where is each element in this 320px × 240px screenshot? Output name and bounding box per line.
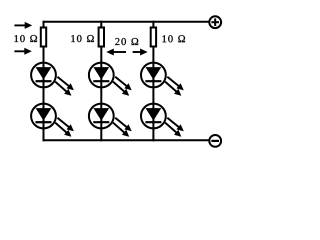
current arrow into branch 1 (upper) — [14, 22, 32, 29]
value label 20 ohm (between branch 2 and 3) — [115, 38, 138, 45]
negative supply terminal (-) — [209, 135, 221, 147]
LED D4 — [89, 104, 132, 137]
wire: branch 2 vertical — [100, 21, 102, 142]
wire: top rail (+) bus — [43, 21, 210, 23]
current arrow pointing left toward branch 2 — [106, 49, 126, 56]
LED D6 — [141, 104, 184, 137]
value label 10 ohm (branch 3) — [163, 35, 186, 42]
value label 10 ohm (branch 2) — [71, 35, 94, 42]
current arrow into branch 1 (lower) — [14, 48, 31, 55]
positive supply terminal (+) — [209, 16, 221, 28]
wire: bottom rail (-) bus — [43, 139, 210, 141]
LED D2 — [31, 104, 74, 137]
LED D3 — [89, 63, 132, 96]
current arrow pointing right toward branch 3 — [133, 49, 148, 56]
resistor R3 (10 ohm, branch 3) — [151, 28, 156, 47]
LED D5 — [141, 63, 184, 96]
value label 10 ohm (branch 1) — [15, 35, 38, 42]
resistor R2 (10 ohm, branch 2) — [99, 28, 104, 47]
resistor R1 (10 ohm, branch 1) — [41, 28, 46, 47]
LED D1 — [31, 63, 74, 96]
wire: branch 1 vertical — [43, 21, 45, 142]
wire: branch 3 vertical — [152, 21, 154, 142]
